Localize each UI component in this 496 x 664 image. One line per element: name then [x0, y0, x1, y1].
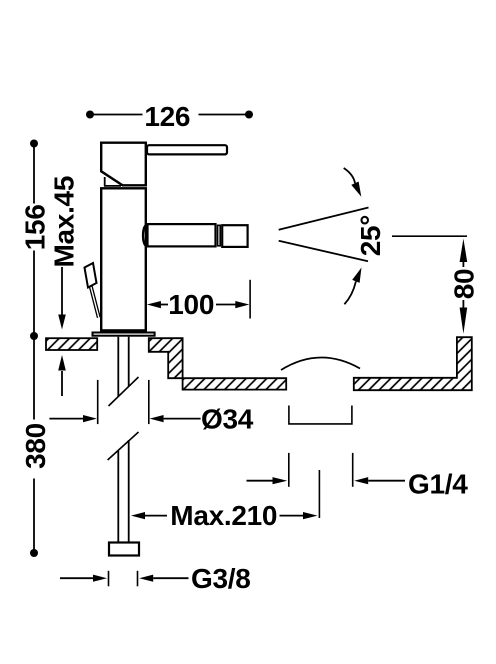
faucet shank right line	[128, 337, 130, 387]
faucet shank left line	[117, 337, 119, 397]
dimension 126 top: left dot	[86, 111, 94, 119]
dimension diameter 34: right extension tick	[148, 380, 150, 424]
faucet body column	[101, 188, 146, 330]
dimension G1/4: left line	[247, 480, 274, 482]
spout joint ring	[218, 225, 221, 246]
dimension 80: down arrowhead	[460, 308, 468, 334]
svg-text:G1/4: G1/4	[408, 468, 468, 499]
bowl gap bracket	[289, 406, 352, 424]
dimension G3/8: right line	[153, 577, 188, 579]
dimension Max.45 down arrow shaft	[61, 267, 63, 315]
dimension Max.210: right line	[280, 515, 304, 517]
dimension 156 line segment lower	[33, 251, 35, 336]
dimension 156/380 vertical line: bottom dot	[30, 549, 38, 557]
counter right hatched section with back wall	[354, 337, 472, 390]
svg-text:156: 156	[19, 204, 50, 250]
dimension 156/380 vertical line: middle dot	[30, 332, 38, 340]
pipe break diagonal lower	[108, 432, 139, 460]
25 degree upper angle line	[279, 208, 369, 230]
dimension 126 top: right line segment	[199, 114, 249, 116]
dimension G1/4: left extension tick	[288, 453, 290, 487]
dimension Max.210: right arrowhead	[303, 512, 318, 519]
dimension diameter 34: right line	[164, 418, 201, 420]
dimension 80: top extension line	[392, 235, 467, 237]
dimension Max.210: left line	[144, 515, 167, 517]
pop-up drain rod (white core)	[91, 287, 99, 318]
dimension 156 line segment upper	[33, 144, 35, 204]
dimension 100: right arrowhead	[235, 301, 249, 308]
svg-text:25°: 25°	[355, 215, 386, 256]
dimension diameter 34: left arrowhead	[83, 415, 97, 422]
25 degree lower arc arrowhead	[352, 268, 361, 283]
dimension Max.45 up arrowhead	[58, 355, 66, 371]
pop-up drain rod (black underlay)	[91, 287, 99, 318]
supply pipe left line	[117, 451, 119, 542]
spout main tube	[148, 224, 216, 246]
svg-text:380: 380	[20, 423, 51, 469]
bowl hump arc	[281, 358, 360, 370]
pipe break diagonal upper	[109, 377, 139, 406]
25 degree upper arc	[344, 168, 355, 183]
dimension diameter 34: left line	[49, 418, 83, 420]
dimension G3/8: left arrowhead	[93, 575, 107, 582]
25 degree lower arc	[344, 281, 356, 304]
25 degree upper arc arrowhead	[351, 182, 361, 197]
dimension G1/4: right extension tick	[352, 453, 354, 487]
dimension diameter 34: left extension tick	[97, 380, 99, 424]
dimension 380 line segment lower	[33, 479, 35, 553]
dimension 100: right extension tick	[249, 280, 251, 319]
dimension 80: lower shaft	[462, 300, 464, 308]
svg-text:G3/8: G3/8	[191, 563, 251, 594]
dimension 126 top: right dot	[245, 111, 253, 119]
dimension 126 top: left line segment	[91, 114, 143, 116]
dimension 380 line segment upper	[33, 337, 35, 420]
svg-text:126: 126	[144, 101, 190, 132]
dimension 100: left arrowhead at body	[147, 301, 161, 308]
faucet base plate	[93, 333, 155, 336]
dimension G3/8: right arrowhead	[139, 575, 153, 582]
dimension G3/8: left line	[60, 577, 94, 579]
faucet handle lever	[147, 145, 227, 154]
pop-up drain knob	[85, 263, 97, 288]
dimension G1/4: right arrowhead	[354, 477, 368, 484]
dimension 100: left line	[160, 304, 168, 306]
dimension Max.210: left arrowhead at pipe	[131, 512, 145, 519]
dimension Max.45 up arrow shaft	[61, 371, 63, 396]
25 degree lower angle line	[279, 241, 368, 262]
dimension 80: upper shaft	[462, 261, 464, 267]
dimension G1/4: right line	[368, 480, 405, 482]
supply pipe right line	[128, 440, 130, 542]
dimension 100: right line	[216, 304, 236, 306]
counter deck middle stepped hatched section	[149, 338, 286, 389]
svg-text:Ø34: Ø34	[201, 404, 254, 435]
dimension Max.45 down arrowhead	[58, 315, 66, 330]
faucet handle cap wedge vertical line	[104, 177, 106, 186]
svg-text:100: 100	[168, 289, 214, 320]
svg-text:Max.45: Max.45	[49, 176, 80, 268]
dimension 156/380 vertical line: top dot	[30, 140, 38, 148]
dimension G1/4: left arrowhead	[273, 477, 288, 484]
faucet handle cap body	[101, 143, 146, 186]
faucet handle cap wedge bottom line	[104, 185, 121, 187]
dimension diameter 34: right arrowhead	[150, 415, 164, 422]
dimension G3/8: left extension tick	[108, 571, 110, 587]
spout root rounded bulge	[143, 225, 147, 247]
svg-text:80: 80	[448, 269, 479, 300]
supply pipe foot	[109, 543, 139, 556]
dimension Max.210: right extension tick	[318, 470, 320, 518]
spout aerator tip	[222, 225, 247, 247]
counter deck left hatched section	[46, 338, 97, 350]
dimension 80: up arrowhead	[460, 239, 468, 262]
dimension G3/8: right extension tick	[137, 571, 139, 587]
svg-text:Max.210: Max.210	[170, 500, 277, 531]
